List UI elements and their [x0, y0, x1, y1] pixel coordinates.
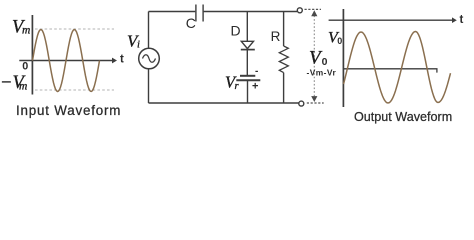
svg-text:Input Waveform: Input Waveform [16, 103, 121, 118]
svg-text:0: 0 [322, 56, 328, 68]
svg-text:-Vm-Vr: -Vm-Vr [307, 67, 337, 77]
svg-text:0: 0 [337, 36, 342, 46]
svg-text:Output Waveform: Output Waveform [354, 110, 452, 124]
svg-text:+: + [252, 81, 258, 93]
svg-text:-: - [255, 66, 258, 77]
svg-text:i: i [137, 40, 140, 51]
svg-text:m: m [22, 25, 30, 37]
svg-text:r: r [235, 81, 240, 92]
svg-text:t: t [120, 54, 124, 66]
svg-text:t: t [460, 14, 464, 26]
svg-text:R: R [271, 29, 281, 44]
svg-text:0: 0 [22, 61, 28, 73]
svg-text:C: C [186, 15, 196, 31]
svg-text:m: m [19, 81, 27, 93]
svg-text:D: D [231, 23, 241, 39]
